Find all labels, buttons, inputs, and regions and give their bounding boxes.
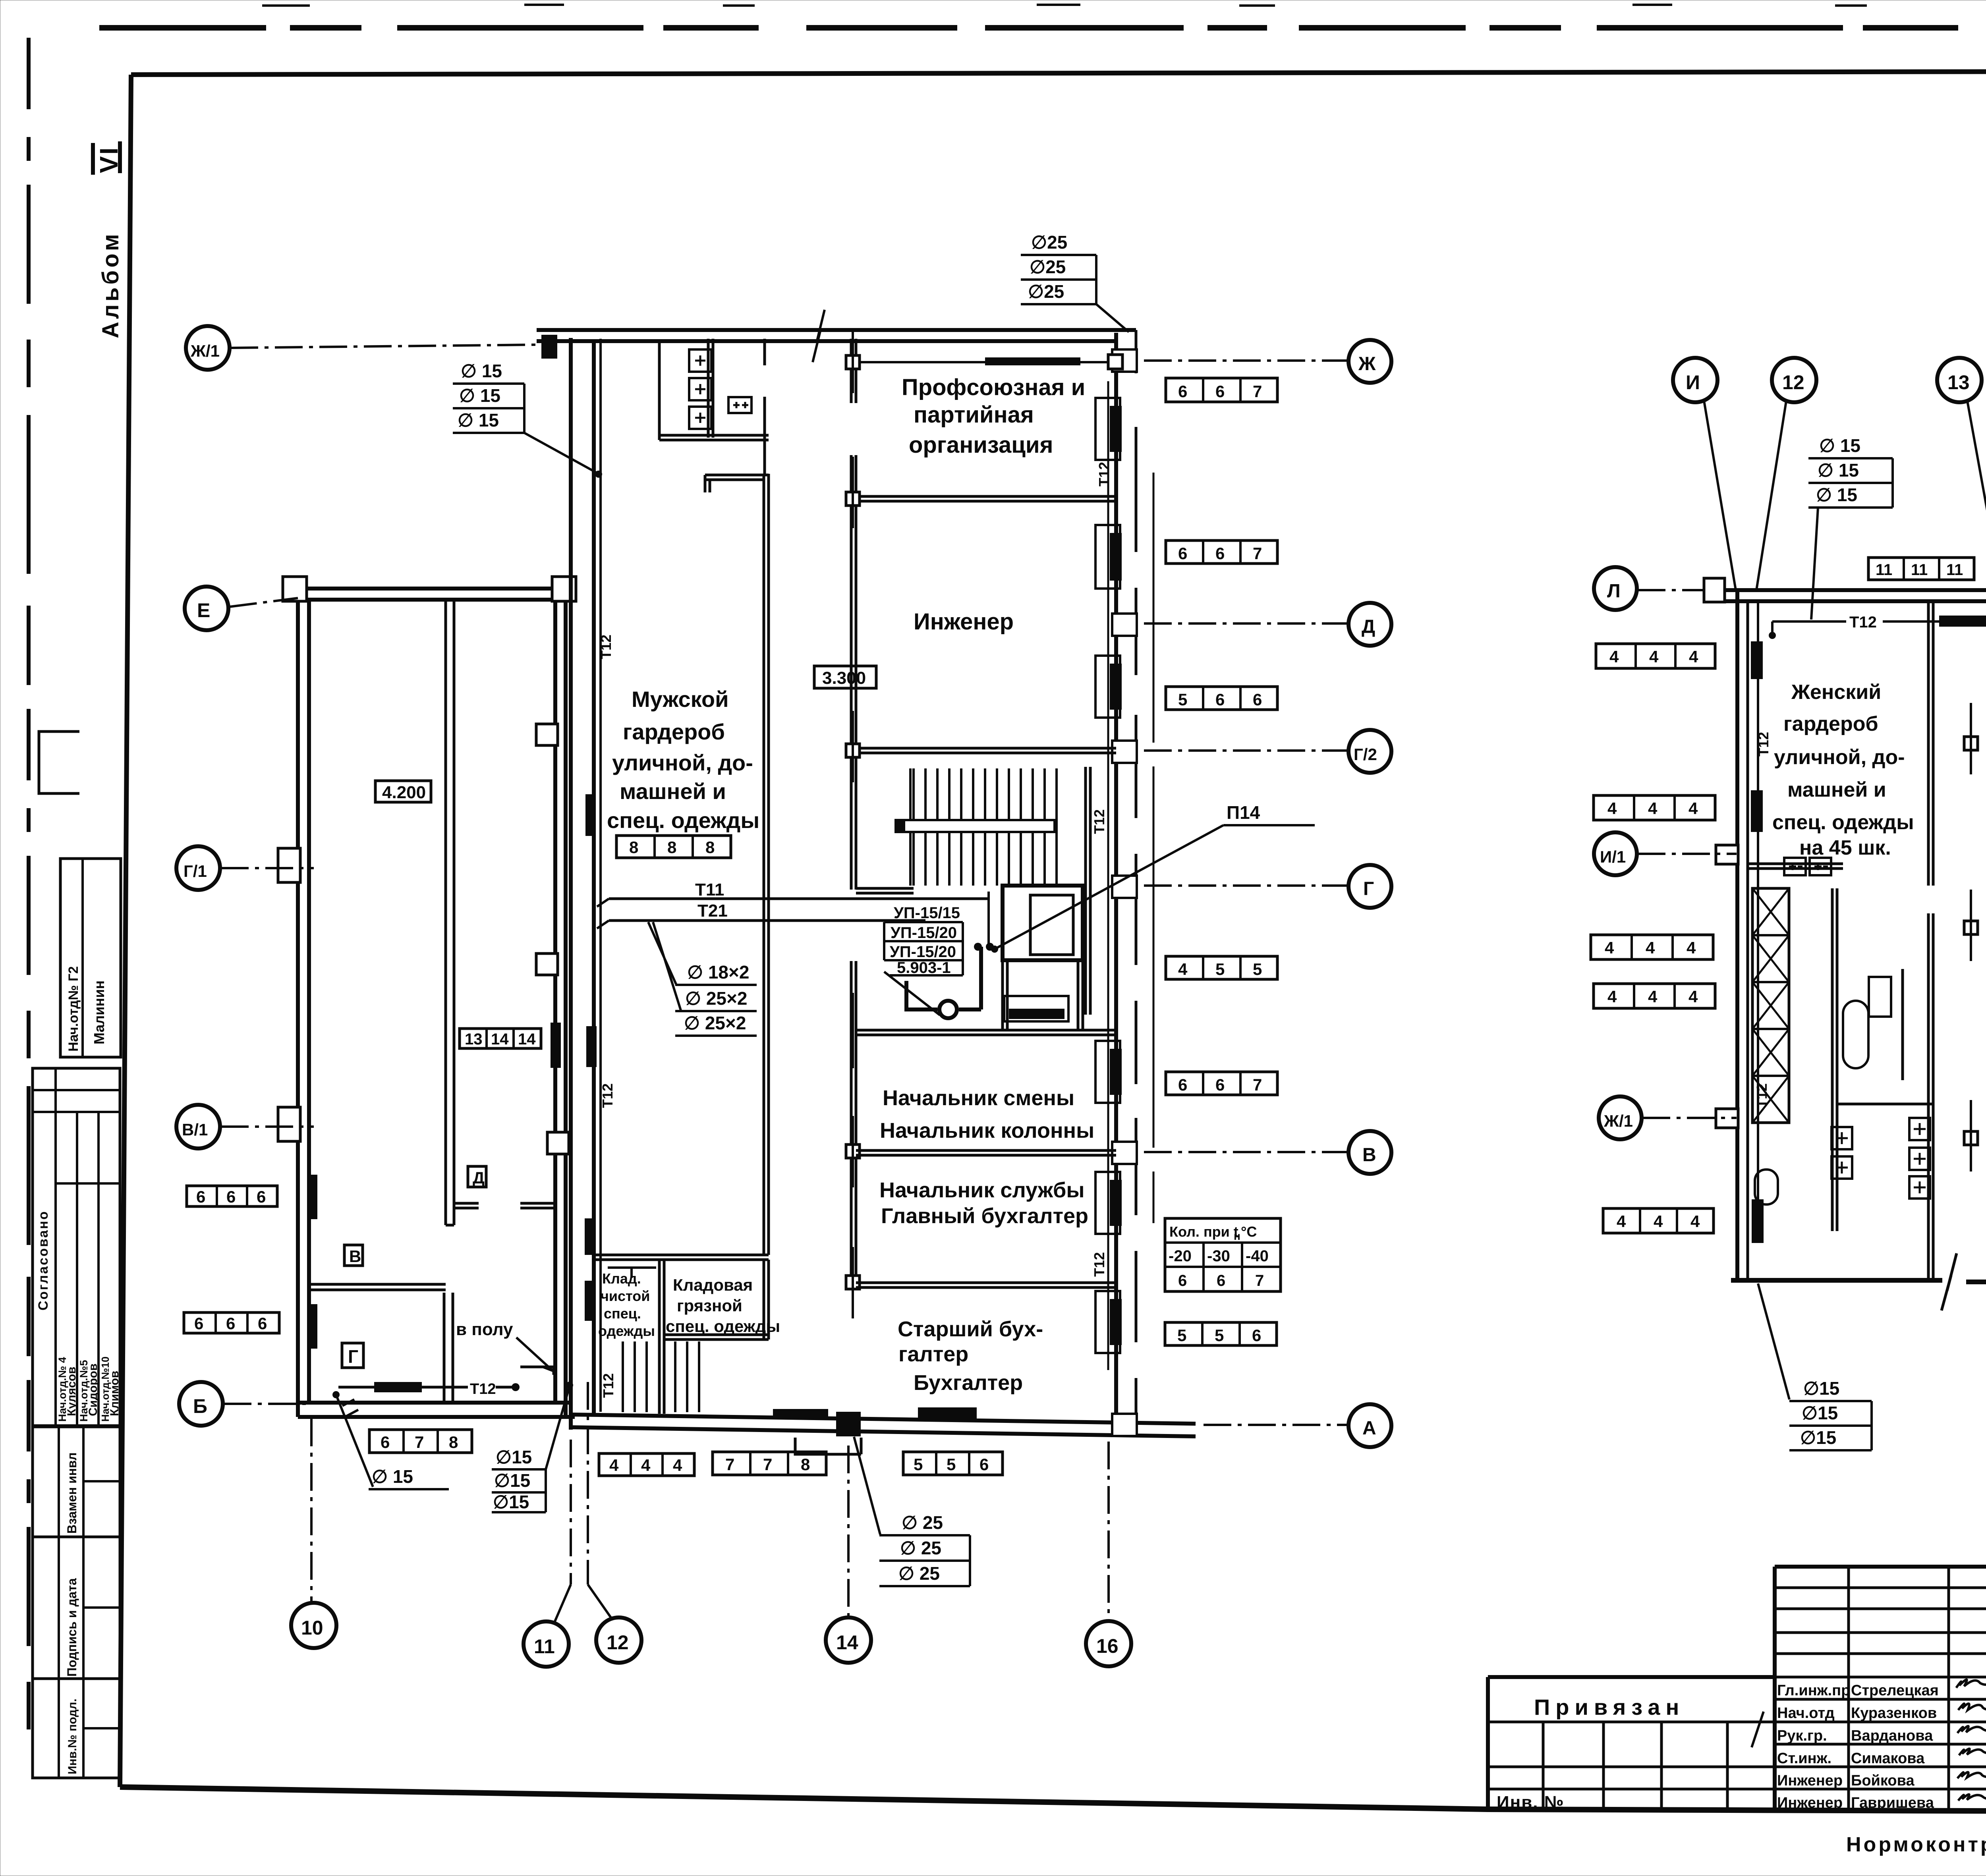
svg-text:14: 14 xyxy=(836,1631,858,1654)
box 6 6 6 left xyxy=(187,1186,277,1206)
svg-text:14: 14 xyxy=(491,1031,509,1048)
box 8 8 8 xyxy=(616,836,731,858)
room text Мужской гардероб xyxy=(607,687,759,833)
svg-text:6: 6 xyxy=(1178,382,1187,401)
rp axis circle И/1 xyxy=(1594,832,1737,875)
annex interior wall Д xyxy=(446,600,454,1225)
label d15 annex bottom xyxy=(369,1466,449,1489)
axis circle А xyxy=(1204,1404,1391,1447)
svg-text:4: 4 xyxy=(1689,647,1698,666)
svg-text:Рук.гр.: Рук.гр. xyxy=(1777,1727,1827,1744)
washroom east wall xyxy=(763,339,766,474)
stack d15 top left xyxy=(453,361,602,478)
svg-text:Д: Д xyxy=(1362,616,1375,637)
svg-text:4: 4 xyxy=(1607,799,1617,818)
box 4 5 5 xyxy=(1166,956,1277,979)
svg-text:УП-15/20: УП-15/20 xyxy=(890,943,956,961)
box 5 6 6 xyxy=(1166,687,1277,710)
svg-text:Профсоюзная и: Профсоюзная и xyxy=(902,374,1085,400)
svg-text:В: В xyxy=(349,1247,361,1266)
svg-text:Т12: Т12 xyxy=(599,1083,616,1108)
rp corridor branch anchors xyxy=(1964,703,1978,1172)
svg-text:4: 4 xyxy=(609,1456,619,1475)
rp left wall xyxy=(1737,590,1748,1282)
east wall sill line xyxy=(1153,473,1155,1223)
svg-text:Т21: Т21 xyxy=(697,901,728,921)
main east wall xyxy=(1116,330,1136,1430)
svg-text:Л: Л xyxy=(1607,581,1621,602)
rp Т12 riser left xyxy=(1751,601,1772,1243)
west wall pilasters xyxy=(536,724,569,1154)
partition Д Профсоюзная-Инженер xyxy=(856,496,1116,501)
svg-text:∅ 15: ∅ 15 xyxy=(372,1466,413,1487)
svg-text:Т12: Т12 xyxy=(1091,1252,1107,1277)
svg-text:6: 6 xyxy=(196,1187,205,1206)
svg-text:6: 6 xyxy=(194,1314,203,1333)
box 4 4 4 bottom xyxy=(599,1453,694,1476)
svg-text:Т11: Т11 xyxy=(695,880,724,899)
svg-text:Т12: Т12 xyxy=(1755,732,1772,757)
svg-text:Ст.инж.: Ст.инж. xyxy=(1777,1750,1831,1767)
east wall window pilasters xyxy=(1112,349,1137,1436)
axis circle Г right xyxy=(1144,865,1391,908)
axis circle 11 xyxy=(524,1440,571,1667)
axis circle В right xyxy=(1348,1131,1391,1174)
svg-text:Гавришева: Гавришева xyxy=(1851,1795,1934,1811)
svg-text:Е: Е xyxy=(197,599,210,621)
box 6 6 7 r3 xyxy=(1166,1072,1277,1095)
svg-text:Т12: Т12 xyxy=(1849,614,1877,631)
svg-text:Г/1: Г/1 xyxy=(184,862,207,880)
room text Инженер xyxy=(914,609,1014,635)
partition 3236 xyxy=(856,1283,1116,1287)
svg-text:∅ 15: ∅ 15 xyxy=(1819,435,1860,456)
svg-text:Нач.отд№ Г2: Нач.отд№ Г2 xyxy=(66,966,81,1052)
svg-text:5.903-1: 5.903-1 xyxy=(897,959,951,977)
svg-text:Г/2: Г/2 xyxy=(1354,745,1377,764)
washroom west wall xyxy=(658,342,661,440)
sheet left dashed edge line xyxy=(27,38,31,1743)
svg-text:Клад.: Клад. xyxy=(602,1270,641,1287)
box 6 6 6 left lower xyxy=(184,1312,279,1333)
box 5 5 6 right xyxy=(1165,1322,1277,1345)
svg-text:УП-15/20: УП-15/20 xyxy=(891,924,957,942)
svg-text:∅ 15: ∅ 15 xyxy=(1816,484,1857,505)
axis circle Е xyxy=(185,587,298,630)
svg-text:6: 6 xyxy=(1253,690,1262,709)
room text Клад чистой xyxy=(598,1270,655,1339)
lower stairs hatch xyxy=(623,1341,699,1412)
svg-text:Т12: Т12 xyxy=(598,635,614,659)
svg-text:∅ 25: ∅ 25 xyxy=(902,1512,943,1533)
svg-text:4: 4 xyxy=(641,1456,651,1475)
svg-text:11: 11 xyxy=(1876,561,1892,579)
svg-text:13: 13 xyxy=(1947,371,1970,394)
stamp cell Инв № подл xyxy=(33,1679,120,1778)
room text Кладовая грязной xyxy=(666,1276,780,1336)
svg-text:14: 14 xyxy=(518,1031,536,1048)
svg-text:16: 16 xyxy=(1096,1635,1119,1657)
svg-text:4: 4 xyxy=(1690,1212,1700,1231)
pipes Т11 Т21 xyxy=(597,880,989,928)
svg-text:∅ 25×2: ∅ 25×2 xyxy=(684,1013,746,1033)
stack d18x2 d25x2 xyxy=(648,922,757,1036)
svg-text:Подпись и дата: Подпись и дата xyxy=(65,1578,79,1677)
annex north wall xyxy=(297,589,566,600)
axis circle Ж/1 xyxy=(186,326,537,370)
annex pilaster В/1 xyxy=(278,1107,300,1141)
stamp bracket cell xyxy=(39,731,79,793)
svg-text:Начальник смены: Начальник смены xyxy=(883,1086,1074,1110)
svg-text:Варданова: Варданова xyxy=(1851,1727,1933,1744)
label Г xyxy=(342,1343,363,1368)
gardrob east wall xyxy=(764,474,769,1255)
sheet top dashed edge line xyxy=(99,5,1986,28)
axis Ж pipe and anchors xyxy=(846,355,1347,369)
svg-text:Нормоконтролер: Нормоконтролер xyxy=(1846,1833,1986,1856)
svg-text:6: 6 xyxy=(1178,1075,1187,1094)
svg-text:7: 7 xyxy=(763,1455,772,1474)
rp top wall pilasters xyxy=(1704,578,1986,602)
svg-text:∅25: ∅25 xyxy=(1028,281,1064,302)
svg-text:Взамен инвл: Взамен инвл xyxy=(65,1452,79,1534)
axis circle Д right xyxy=(1144,603,1391,646)
svg-text:Нач.отд: Нач.отд xyxy=(1777,1705,1835,1722)
rp bottom wall xyxy=(1731,1253,1986,1310)
rp axis circle 12 top xyxy=(1756,358,1816,590)
svg-text:∅15: ∅15 xyxy=(1803,1378,1839,1399)
label Д xyxy=(468,1166,486,1187)
svg-text:машней и: машней и xyxy=(620,779,726,804)
svg-text:4: 4 xyxy=(1654,1212,1663,1231)
annex corner pilasters xyxy=(283,577,576,601)
svg-text:5: 5 xyxy=(914,1455,923,1474)
svg-text:И: И xyxy=(1686,371,1700,394)
svg-text:Б: Б xyxy=(193,1395,207,1417)
rp box 11 11 11 xyxy=(1868,558,1974,580)
svg-text:6: 6 xyxy=(1215,1075,1225,1094)
bottom T12 radiator annex xyxy=(338,1381,520,1397)
svg-text:Сидоров: Сидоров xyxy=(87,1363,100,1416)
svg-text:∅25: ∅25 xyxy=(1031,232,1067,253)
svg-text:Женский: Женский xyxy=(1791,681,1881,704)
svg-text:гардероб: гардероб xyxy=(623,719,725,744)
Т12 riser west wall xyxy=(585,339,616,1412)
svg-text:Д: Д xyxy=(473,1168,485,1187)
annex partition В-Г xyxy=(309,1284,446,1290)
box 7 7 8 bottom xyxy=(713,1452,826,1475)
partition В axis xyxy=(856,1150,1347,1155)
svg-text:7: 7 xyxy=(1253,1075,1262,1094)
svg-text:Кладовая: Кладовая xyxy=(673,1276,753,1294)
svg-text:в полу: в полу xyxy=(456,1320,513,1339)
svg-text:на 45 шк.: на 45 шк. xyxy=(1799,836,1891,859)
partition стены 2600 xyxy=(856,1030,1116,1035)
annex pier xyxy=(444,1293,453,1403)
svg-text:-20: -20 xyxy=(1169,1247,1192,1265)
svg-text:∅15: ∅15 xyxy=(493,1492,529,1512)
leader Б oint xyxy=(332,1391,373,1487)
svg-text:6: 6 xyxy=(226,1187,236,1206)
svg-text:Малинин: Малинин xyxy=(91,980,107,1044)
svg-text:Т12: Т12 xyxy=(600,1373,616,1398)
corridor NW corner wall xyxy=(705,475,769,492)
svg-text:А: А xyxy=(1362,1418,1376,1439)
svg-text:4: 4 xyxy=(1607,987,1617,1006)
svg-text:∅ 25×2: ∅ 25×2 xyxy=(685,988,747,1009)
stairs handrail xyxy=(896,820,1055,832)
svg-text:4: 4 xyxy=(1688,987,1698,1006)
svg-text:Инв. №: Инв. № xyxy=(1497,1793,1565,1812)
svg-text:∅ 15: ∅ 15 xyxy=(1818,460,1859,481)
svg-text:7: 7 xyxy=(1253,382,1262,401)
svg-text:5: 5 xyxy=(1253,960,1262,979)
rp room text Женский гардероб xyxy=(1772,681,1914,859)
stamp approval table xyxy=(33,1068,121,1426)
svg-text:УП-15/15: УП-15/15 xyxy=(894,904,960,922)
svg-text:спец.: спец. xyxy=(604,1305,641,1322)
label 4.200 xyxy=(375,781,431,802)
svg-text:6: 6 xyxy=(1217,1272,1225,1289)
label в полу xyxy=(456,1320,554,1375)
svg-text:спец. одежды: спец. одежды xyxy=(1772,811,1914,834)
stack d15 bottom center xyxy=(492,1382,573,1512)
svg-text:5: 5 xyxy=(1215,1326,1224,1345)
svg-text:Старший бух-: Старший бух- xyxy=(898,1317,1043,1341)
signature grid rows empty top xyxy=(1775,1588,1986,1789)
signature squiggles xyxy=(1752,1679,1986,1801)
svg-text:4: 4 xyxy=(1649,647,1659,666)
svg-text:Г: Г xyxy=(348,1346,358,1367)
annex radiators xyxy=(308,1023,561,1349)
radiator near lift xyxy=(1004,996,1068,1021)
svg-text:В: В xyxy=(1362,1145,1376,1166)
stamp cell Нач.отд №2 Малинин xyxy=(60,859,121,1057)
svg-text:уличной, до-: уличной, до- xyxy=(1774,746,1905,769)
svg-text:4: 4 xyxy=(1605,938,1614,957)
svg-text:Климов: Климов xyxy=(108,1371,121,1416)
svg-text:Инженер: Инженер xyxy=(914,609,1014,635)
svg-text:5: 5 xyxy=(1178,690,1187,709)
svg-text:5: 5 xyxy=(1215,960,1225,979)
stamp cell Подпись и дата xyxy=(33,1537,120,1679)
rp stack d15 top xyxy=(1808,435,1893,620)
stairs hatch left plan xyxy=(910,768,1057,886)
svg-text:Главный бухгалтер: Главный бухгалтер xyxy=(881,1204,1088,1228)
rp boxes 4 4 4 left xyxy=(1596,644,1715,668)
svg-text:∅ 25: ∅ 25 xyxy=(900,1538,941,1558)
svg-text:уличной, до-: уличной, до- xyxy=(612,750,753,775)
svg-text:11: 11 xyxy=(534,1635,555,1658)
svg-text:10: 10 xyxy=(301,1617,323,1639)
svg-text:8: 8 xyxy=(801,1455,810,1474)
svg-text:4: 4 xyxy=(1617,1212,1626,1231)
svg-text:Мужской: Мужской xyxy=(632,687,729,712)
УП box xyxy=(884,904,963,977)
svg-text:12: 12 xyxy=(1782,371,1804,394)
svg-text:5: 5 xyxy=(947,1455,956,1474)
axis circle 16 xyxy=(1086,1442,1131,1666)
svg-text:11: 11 xyxy=(1946,561,1963,579)
svg-text:Бухгалтер: Бухгалтер xyxy=(914,1371,1023,1395)
room text Старший бухгалтер xyxy=(898,1317,1043,1395)
axis circle Ж xyxy=(1348,340,1391,383)
svg-text:Куразенков: Куразенков xyxy=(1851,1705,1937,1722)
svg-text:6: 6 xyxy=(226,1314,235,1333)
bottom wall radiators xyxy=(773,1407,977,1419)
svg-text:н: н xyxy=(1234,1230,1240,1242)
svg-text:Стрелецкая: Стрелецкая xyxy=(1851,1682,1939,1699)
svg-text:6: 6 xyxy=(1178,1272,1187,1289)
svg-text:13: 13 xyxy=(465,1031,483,1048)
svg-text:-40: -40 xyxy=(1246,1247,1269,1265)
svg-text:6: 6 xyxy=(1252,1326,1261,1345)
annex pilaster Г/1 xyxy=(278,848,300,882)
T12 riser along east wall xyxy=(1107,381,1109,1370)
annex west wall xyxy=(298,589,309,1417)
svg-text:Т12: Т12 xyxy=(1091,809,1107,834)
title block outer xyxy=(1775,1567,1986,1811)
svg-text:4.200: 4.200 xyxy=(382,783,426,802)
rp top wall axis Л xyxy=(1703,589,1986,603)
svg-text:6: 6 xyxy=(1215,690,1225,709)
rp washroom partitions xyxy=(1832,888,1933,1231)
rp stack d15 bottom xyxy=(1758,1283,1872,1450)
svg-text:Начальник службы: Начальник службы xyxy=(879,1178,1084,1202)
svg-text:8: 8 xyxy=(705,838,715,857)
rp axis circle И top xyxy=(1673,358,1736,590)
svg-text:Привязан: Привязан xyxy=(1534,1695,1685,1720)
svg-text:4: 4 xyxy=(1648,799,1658,818)
svg-text:4: 4 xyxy=(673,1456,682,1475)
svg-text:∅15: ∅15 xyxy=(494,1470,530,1491)
stairwell east wall xyxy=(1086,767,1090,1015)
privyazan block xyxy=(1488,1677,1775,1811)
svg-text:4: 4 xyxy=(1648,987,1658,1006)
svg-text:Согласовано: Согласовано xyxy=(36,1210,51,1311)
branch anchors xyxy=(846,330,860,1318)
svg-text:°С: °С xyxy=(1241,1224,1257,1240)
rp axis circle Л xyxy=(1594,567,1703,610)
svg-text:И/1: И/1 xyxy=(1600,847,1626,866)
rp corridor west wall xyxy=(1928,601,1933,1280)
main west wall xyxy=(571,338,594,1430)
svg-text:организация: организация xyxy=(909,432,1053,458)
main bottom wall axis А xyxy=(571,1415,1196,1436)
svg-text:Инв.№ подл.: Инв.№ подл. xyxy=(66,1698,79,1774)
rp axis circle 13 top xyxy=(1937,358,1986,581)
svg-text:5: 5 xyxy=(1177,1326,1186,1345)
svg-text:В/1: В/1 xyxy=(182,1120,208,1139)
svg-text:∅15: ∅15 xyxy=(1800,1427,1836,1448)
svg-text:∅ 15: ∅ 15 xyxy=(458,410,499,430)
svg-text:Т12: Т12 xyxy=(470,1381,496,1397)
svg-text:спец. одежды: спец. одежды xyxy=(666,1317,780,1336)
svg-text:Г: Г xyxy=(1363,878,1374,899)
svg-text:Кол. при t: Кол. при t xyxy=(1169,1224,1238,1240)
svg-text:7: 7 xyxy=(1253,544,1262,563)
rp left wall pilasters xyxy=(1716,845,1738,1128)
svg-text:Инженер: Инженер xyxy=(1777,1795,1843,1811)
svg-text:партийная: партийная xyxy=(914,402,1034,428)
svg-text:Ж: Ж xyxy=(1358,353,1376,374)
svg-text:∅ 15: ∅ 15 xyxy=(461,361,502,381)
svg-text:7: 7 xyxy=(725,1455,734,1474)
svg-text:∅ 15: ∅ 15 xyxy=(459,385,500,406)
stamp cell Взамен инв. xyxy=(33,1427,120,1778)
album VI vertical caption xyxy=(93,141,124,338)
svg-text:Ж/1: Ж/1 xyxy=(1603,1112,1633,1130)
signature rows texts xyxy=(1777,1682,1939,1811)
signature grid columns xyxy=(1849,1567,1986,1811)
svg-text:4: 4 xyxy=(1646,938,1655,957)
stack d25 top xyxy=(1021,232,1129,332)
stair landing wall xyxy=(856,888,914,893)
svg-text:Симакова: Симакова xyxy=(1851,1750,1925,1767)
annex east wall xyxy=(555,589,566,1417)
pump and pipes xyxy=(884,892,994,1018)
svg-text:машней и: машней и xyxy=(1787,778,1886,801)
axis circle Г/1 xyxy=(176,846,314,890)
label 3.300 xyxy=(814,666,876,688)
corridor east wall xyxy=(851,339,856,1283)
svg-text:галтер: галтер xyxy=(898,1342,968,1366)
axis circle Б xyxy=(179,1382,306,1426)
room text Профсоюзная xyxy=(902,374,1085,458)
normokontroler row below frame xyxy=(1846,1833,1986,1862)
axis circle 10 xyxy=(291,1419,336,1648)
svg-text:∅15: ∅15 xyxy=(496,1447,532,1467)
annex partition room Д xyxy=(454,1203,555,1208)
axis circle 14 xyxy=(826,1446,871,1663)
washroom plus box xyxy=(728,397,752,413)
svg-text:спец. одежды: спец. одежды xyxy=(607,808,759,833)
rp И/1 partition and radiator boxes xyxy=(1748,858,1843,875)
svg-text:6: 6 xyxy=(1215,382,1225,401)
kladovaya walls xyxy=(596,1255,769,1414)
svg-text:7: 7 xyxy=(415,1433,424,1451)
svg-text:4: 4 xyxy=(1688,799,1698,818)
svg-text:6: 6 xyxy=(258,1314,267,1333)
washroom partition xyxy=(659,435,769,440)
svg-text:одежды: одежды xyxy=(598,1323,655,1339)
svg-text:Инженер: Инженер xyxy=(1777,1772,1843,1789)
label П14 xyxy=(991,802,1315,953)
svg-text:6: 6 xyxy=(257,1187,266,1206)
svg-text:чистой: чистой xyxy=(601,1288,650,1304)
table Кол при tn xyxy=(1165,1218,1281,1291)
rp X shaft xyxy=(1752,888,1789,1123)
stack d25 bottom xyxy=(854,1437,970,1586)
svg-text:7: 7 xyxy=(1255,1272,1264,1289)
T12 labels east wall xyxy=(1091,462,1112,1277)
svg-text:Начальник колонны: Начальник колонны xyxy=(880,1119,1094,1143)
svg-text:4: 4 xyxy=(1609,647,1619,666)
box 6 6 7 r2 xyxy=(1166,540,1277,564)
box 6 6 7 r1 xyxy=(1166,378,1277,402)
svg-text:Ж/1: Ж/1 xyxy=(190,342,220,360)
svg-text:Гл.инж.пр: Гл.инж.пр xyxy=(1777,1682,1850,1699)
annex south wall axis Б xyxy=(298,1403,575,1417)
label В xyxy=(344,1245,363,1266)
svg-text:11: 11 xyxy=(1911,561,1928,579)
main top wall axis Ж/1 xyxy=(537,310,1136,362)
svg-text:6: 6 xyxy=(1215,544,1225,563)
box 13 14 14 xyxy=(460,1029,541,1048)
lift shaft xyxy=(1003,886,1083,1030)
svg-text:6: 6 xyxy=(1178,544,1187,563)
rp T12 pipe top xyxy=(1769,614,1986,639)
